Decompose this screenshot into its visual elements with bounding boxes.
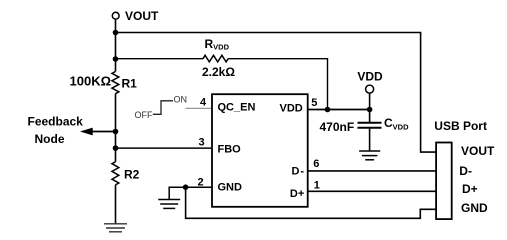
svg-text:USB Port: USB Port: [434, 119, 487, 133]
svg-text:VDD: VDD: [357, 70, 383, 84]
svg-text:Feedback: Feedback: [28, 115, 84, 129]
resistor R2: [112, 162, 140, 185]
svg-text:D+: D+: [462, 182, 478, 196]
svg-text:470nF: 470nF: [320, 120, 355, 134]
svg-text:GND: GND: [461, 201, 488, 215]
svg-text:1: 1: [314, 180, 320, 192]
USB port connector box: [434, 119, 495, 219]
node FBO junction: [113, 145, 119, 151]
wire to RVDD resistor: [116, 58, 204, 60]
wire VOUT vertical down to R1: [115, 19, 117, 71]
wire VDD pin 5: [307, 109, 370, 111]
wire D+ pin 1: [307, 190, 436, 192]
svg-text:VOUT: VOUT: [125, 9, 159, 23]
svg-text:R2: R2: [124, 168, 140, 182]
wire QC_EN pin 4 (grey): [186, 107, 213, 109]
svg-text:3: 3: [199, 136, 205, 148]
wire VOUT top branch to USB port: [116, 33, 437, 153]
svg-text:FBO: FBO: [218, 143, 242, 155]
wire GND bottom run to USB port: [186, 187, 437, 218]
svg-text:GND: GND: [218, 182, 243, 194]
ground at IC pin 2: [158, 200, 180, 209]
svg-text:Node: Node: [35, 132, 65, 146]
terminal VOUT: [112, 9, 159, 23]
svg-text:4: 4: [200, 97, 207, 109]
svg-text:QC_EN: QC_EN: [218, 102, 256, 114]
ground below R2: [104, 224, 127, 232]
wire GND junction to ground symbol: [169, 187, 185, 199]
node VDD/cap junction: [367, 107, 373, 113]
svg-text:OFF: OFF: [135, 110, 153, 120]
svg-text:D -: D -: [292, 166, 305, 178]
node GND junction: [183, 184, 189, 190]
svg-text:ON: ON: [174, 94, 188, 104]
svg-text:VDD: VDD: [280, 103, 303, 115]
resistor RVDD 2.2k: [202, 37, 235, 79]
svg-text:6: 6: [313, 158, 319, 170]
wire R2 to ground: [115, 185, 117, 224]
wire cap to ground: [369, 128, 371, 151]
svg-text:D+: D+: [290, 188, 304, 200]
wire GND pin 2: [186, 186, 212, 188]
node junction top (VOUT branch): [113, 30, 119, 36]
node pin5/RVDD junction: [325, 107, 331, 113]
wire FBO pin 3: [116, 147, 213, 149]
wire R1 down through feedback node to R2: [115, 94, 117, 162]
op-amp/IC U1 box: [212, 94, 308, 207]
capacitor CVDD 470nF: [320, 116, 410, 134]
svg-text:D-: D-: [459, 164, 472, 178]
node junction RVDD branch: [113, 56, 119, 62]
wire D- pin 6: [307, 170, 436, 172]
node feedback junction with arrow: [28, 115, 119, 147]
wire RVDD to pin 5 net: [228, 59, 327, 110]
switch ON/OFF annotation: [135, 94, 188, 120]
resistor R1 100K: [70, 72, 138, 94]
svg-text:5: 5: [311, 97, 317, 109]
ground below capacitor: [359, 151, 380, 160]
terminal VDD: [357, 70, 383, 123]
svg-text:2.2kΩ: 2.2kΩ: [202, 65, 235, 79]
svg-text:VOUT: VOUT: [461, 144, 495, 158]
svg-text:R1: R1: [122, 76, 138, 90]
svg-text:100KΩ: 100KΩ: [70, 74, 112, 89]
